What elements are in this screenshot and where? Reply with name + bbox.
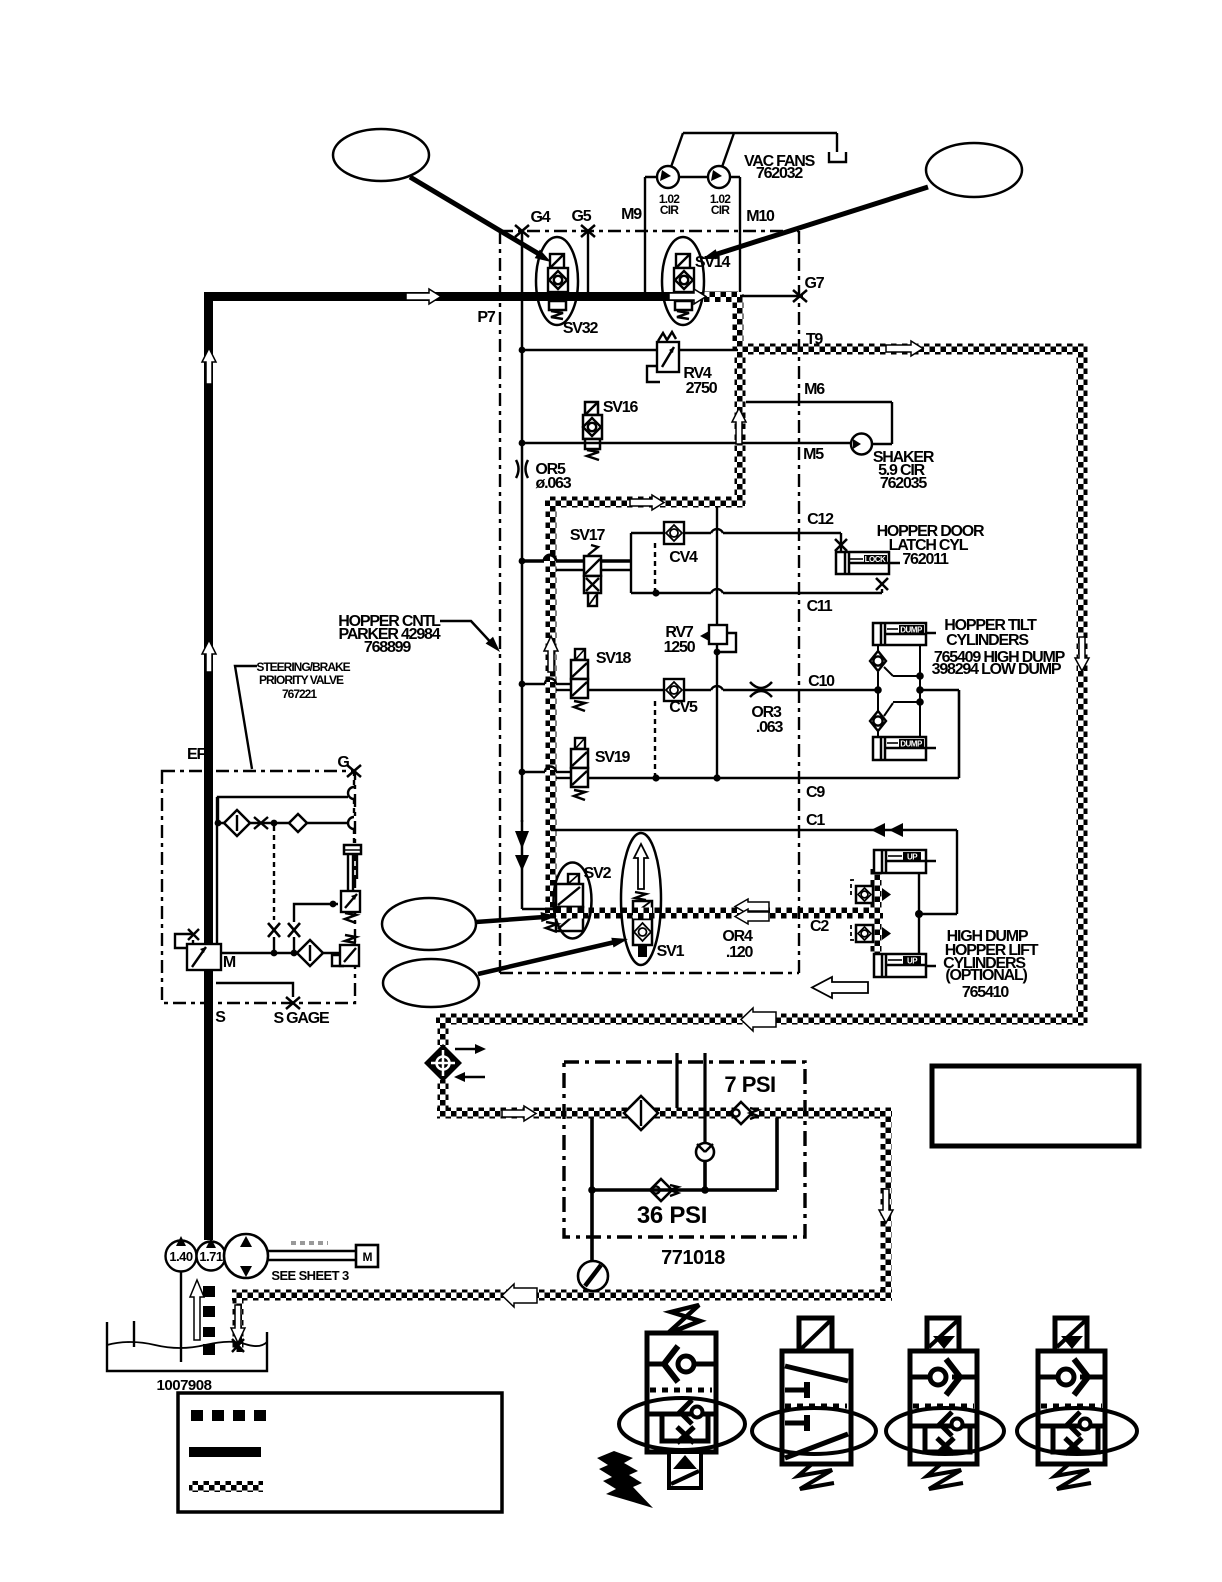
flow arrow left on C2 checkered — [735, 899, 769, 914]
svg-text:EF: EF — [187, 746, 206, 763]
leader hopper cntl — [440, 621, 496, 648]
wire P7 thick pressure line — [209, 297, 703, 1241]
wire bottom return checkered to tank y1295 — [232, 1290, 892, 1301]
wire lift cylinder vertical — [918, 873, 920, 954]
suction dashed thick line — [203, 1286, 215, 1355]
solenoid B — [799, 1318, 832, 1352]
solenoid A — [669, 1452, 701, 1488]
callout ellipse SV2 — [382, 898, 476, 950]
flow arrow up on x551 checkered — [544, 636, 558, 672]
svg-text:SV17: SV17 — [570, 527, 606, 544]
771018 manifold boundary dash-dot — [564, 1062, 805, 1237]
M9/M10 motor box — [644, 177, 646, 292]
callout ellipse top-right — [926, 143, 1022, 197]
svg-text:M: M — [223, 954, 236, 971]
vent tank symbol — [829, 152, 846, 162]
legend box — [178, 1393, 502, 1512]
relief valve RV4 — [522, 349, 738, 351]
36 PSI check — [650, 1179, 672, 1201]
filter diamond in manifold — [624, 1096, 658, 1130]
spring bottom C — [927, 1464, 963, 1489]
svg-text:CIR: CIR — [711, 203, 730, 217]
svg-text:T9: T9 — [806, 331, 824, 348]
body D — [1038, 1351, 1105, 1464]
svg-text:LOCK: LOCK — [865, 555, 886, 564]
leader arrow to SV32 — [410, 177, 539, 254]
wire checkered horizontal into hopper block y502 — [545, 497, 745, 508]
wire checkered drop into tank — [233, 1300, 244, 1352]
svg-text:SV1: SV1 — [657, 943, 685, 960]
svg-text:DUMP: DUMP — [900, 626, 923, 635]
steering/brake priority valve boundary dash-dot — [162, 771, 355, 1003]
cylinder high dump lift top — [874, 850, 936, 873]
svg-text:CYLINDERS: CYLINDERS — [946, 632, 1029, 649]
svg-text:(OPTIONAL): (OPTIONAL) — [945, 967, 1027, 984]
compensator valve — [341, 891, 360, 912]
legend pressure line sample — [189, 1447, 261, 1457]
svg-text:762035: 762035 — [880, 475, 927, 492]
manifold vent lines — [675, 1053, 678, 1108]
wire C2 checkered over SV2/SV1 — [556, 908, 583, 919]
flow arrow up on P7 vertical mid — [202, 640, 216, 672]
svg-text:C10: C10 — [808, 673, 835, 690]
svg-text:G4: G4 — [531, 209, 551, 226]
check valve diamond 1 — [224, 810, 250, 836]
pilot check lift upper — [851, 880, 857, 895]
svg-text:771018: 771018 — [661, 1247, 725, 1269]
flow arrow left on y1019 checkered — [741, 1008, 776, 1031]
wire G5 drop — [587, 231, 589, 292]
svg-text:UP: UP — [907, 957, 918, 966]
cooler flow arrows — [455, 1048, 475, 1051]
svg-text:STEERING/BRAKE: STEERING/BRAKE — [256, 660, 350, 674]
vac fan motor 1 — [657, 166, 679, 188]
svg-text:1.40: 1.40 — [169, 1249, 193, 1264]
svg-text:M9: M9 — [621, 206, 642, 223]
manifold internal lines — [590, 1118, 594, 1261]
motor SHAKER — [851, 434, 872, 455]
svg-text:765410: 765410 — [962, 984, 1009, 1001]
cylinder hopper tilt bottom — [873, 737, 936, 760]
wire bottom internal line — [217, 952, 340, 954]
svg-text:ø.063: ø.063 — [536, 475, 572, 492]
solenoid D — [1055, 1318, 1087, 1351]
orifice X latch top — [835, 539, 847, 551]
wire C10 — [684, 689, 711, 691]
valve detail A — [597, 1305, 745, 1508]
svg-text:SV16: SV16 — [603, 399, 639, 416]
flow arrow down into tank — [231, 1305, 245, 1343]
wire bracket SV17 outputs — [630, 533, 632, 593]
wire C9 — [588, 777, 959, 779]
callout ellipse top-left — [333, 129, 429, 181]
lightning bolt — [597, 1451, 653, 1508]
pilot L line to compensator — [294, 904, 338, 922]
detail box empty rectangle — [932, 1066, 1139, 1146]
svg-text:7 PSI: 7 PSI — [724, 1072, 775, 1097]
tilt cylinder check network — [878, 645, 920, 737]
svg-text:CV5: CV5 — [669, 699, 698, 716]
pilot line CV5 dashed — [654, 701, 656, 778]
svg-text:DUMP: DUMP — [900, 740, 923, 749]
erased label grey — [291, 1241, 328, 1245]
leader steering — [235, 666, 257, 769]
svg-text:M: M — [363, 1250, 373, 1264]
override ellipse D — [1017, 1408, 1137, 1454]
small diamond check — [289, 814, 307, 832]
wire C11 — [631, 592, 711, 594]
pump section circle 1.71 — [197, 1242, 226, 1271]
relief valve lower — [345, 935, 356, 943]
svg-text:768899: 768899 — [364, 639, 411, 656]
wire left rail inside priority — [216, 797, 218, 944]
wire M6 line — [746, 401, 892, 403]
wire C2 checkered horizontal — [545, 908, 883, 919]
valve detail D — [1017, 1318, 1137, 1489]
svg-text:398294 LOW DUMP: 398294 LOW DUMP — [932, 661, 1062, 678]
flow arrow right into manifold — [502, 1106, 536, 1121]
svg-text:UP: UP — [907, 853, 918, 862]
wire checkered vertical M5/M6 branch — [735, 354, 746, 504]
poppet check under vent — [696, 1143, 714, 1161]
svg-text:1007908: 1007908 — [157, 1377, 212, 1394]
svg-text:CV4: CV4 — [669, 549, 698, 566]
wire checkered vertical at lift cylinders — [871, 868, 882, 956]
spring bottom D — [1055, 1464, 1091, 1489]
wire rail down arrows — [521, 820, 524, 909]
spring top A — [668, 1305, 700, 1333]
pressure gauge — [578, 1261, 608, 1291]
wire right return checkered vertical x1082 — [1077, 344, 1088, 1026]
svg-text:1250: 1250 — [664, 639, 696, 656]
cylinder high dump lift bottom — [874, 954, 936, 977]
leader arrow to SV14 — [714, 187, 928, 255]
load sense piston — [344, 845, 361, 854]
svg-text:G: G — [337, 754, 349, 771]
big left arrow below lift — [812, 977, 868, 998]
svg-text:762011: 762011 — [902, 551, 949, 568]
svg-text:C9: C9 — [806, 784, 825, 801]
svg-text:SV19: SV19 — [595, 749, 631, 766]
svg-text:G7: G7 — [805, 275, 825, 292]
legend pilot line sample squares — [191, 1410, 266, 1421]
orifice X latch bottom — [876, 578, 888, 590]
svg-text:2750: 2750 — [686, 380, 718, 397]
node G7 — [740, 295, 803, 297]
wire M5 line — [522, 442, 851, 444]
valve SV1 — [621, 833, 661, 965]
check tilt lower — [870, 711, 886, 731]
cooler diamond — [424, 1044, 462, 1082]
svg-text:767221: 767221 — [282, 687, 317, 701]
pilot line CV4 dashed — [654, 543, 656, 593]
wire T9 return checkered horizontal — [737, 344, 1087, 355]
check tilt upper — [870, 651, 886, 671]
wire checkered manifold outlet vertical x886 — [881, 1118, 892, 1301]
pilot line G dashed with hops — [353, 771, 355, 787]
valve detail B — [752, 1318, 876, 1489]
body B — [782, 1351, 851, 1464]
orifice OR3 — [750, 682, 772, 688]
pilot dashed down from junction — [273, 826, 275, 920]
orifice X pair — [268, 923, 280, 937]
orifice OR5 — [516, 460, 519, 478]
svg-text:1.71: 1.71 — [199, 1249, 223, 1264]
svg-text:C1: C1 — [806, 812, 825, 829]
svg-text:CIR: CIR — [660, 203, 679, 217]
svg-text:C2: C2 — [810, 918, 829, 935]
hopper control block boundary dash-dot — [500, 231, 799, 973]
orifice X above prop valve — [188, 929, 199, 940]
svg-text:SEE SHEET 3: SEE SHEET 3 — [271, 1268, 349, 1283]
node X tank return — [232, 1339, 244, 1352]
valve SV16 — [583, 402, 602, 439]
svg-text:.063: .063 — [756, 719, 784, 736]
svg-text:M6: M6 — [804, 381, 825, 398]
flow arrow left on bottom return — [502, 1284, 537, 1307]
pump section circle 1.40 — [166, 1241, 197, 1272]
body A — [647, 1333, 716, 1452]
valve SV32 cartridge — [536, 237, 578, 325]
override ellipse B — [752, 1408, 876, 1454]
svg-text:SV32: SV32 — [563, 320, 599, 337]
flow arrow right on T9 — [886, 341, 923, 356]
svg-text:C12: C12 — [807, 511, 834, 528]
body C — [910, 1351, 977, 1464]
svg-text:M10: M10 — [746, 208, 775, 225]
cylinder hopper door latch — [836, 552, 900, 574]
flow arrow up suction — [190, 1280, 204, 1340]
svg-text:C11: C11 — [807, 598, 833, 615]
callout ellipse SV1 — [383, 959, 479, 1007]
pilot check lift lower — [851, 925, 857, 940]
vac fan drain lines — [671, 133, 683, 167]
tank outline — [107, 1322, 267, 1371]
wire C1 — [551, 829, 957, 831]
wire SV14 to T9 checkered drop — [733, 294, 744, 349]
flow arrow up on P7 vertical top — [202, 348, 216, 384]
svg-text:762032: 762032 — [756, 165, 803, 182]
node S GAGE — [286, 997, 300, 1009]
check valve CV5 — [588, 689, 664, 691]
legend return line sample — [189, 1481, 263, 1492]
relief valve RV7 — [716, 507, 718, 625]
bracket left of prop valve — [175, 934, 193, 948]
valve SV14 cartridge — [662, 237, 704, 325]
wire checkered vertical left x551 — [546, 497, 557, 919]
override ellipse C — [886, 1408, 1004, 1454]
wire priority top line — [218, 797, 348, 823]
solenoid C — [927, 1318, 959, 1351]
override ellipse A — [619, 1398, 745, 1450]
svg-text:.120: .120 — [726, 944, 754, 961]
cylinder hopper tilt top — [873, 623, 936, 645]
flow arrow right on y502 checkered — [630, 495, 664, 510]
svg-text:S GAGE: S GAGE — [273, 1010, 330, 1027]
svg-text:M5: M5 — [803, 446, 824, 463]
wire internal supply rail x522 — [521, 231, 524, 822]
svg-text:36 PSI: 36 PSI — [637, 1202, 707, 1229]
flow arrow down on right return checkered — [1075, 637, 1089, 671]
orifice X on line — [254, 817, 268, 829]
wire checkered drop to cooler — [438, 1024, 449, 1046]
flow arrow down on manifold outlet — [879, 1189, 893, 1223]
vac fan motor 2 — [708, 166, 730, 188]
flow arrow up on M5/M6 checkered — [732, 408, 746, 444]
junction dots tilt — [874, 686, 882, 694]
pump shaft — [268, 1250, 357, 1253]
svg-text:SV18: SV18 — [596, 650, 632, 667]
svg-text:SV14: SV14 — [695, 254, 731, 271]
motor M box — [356, 1245, 378, 1267]
valve detail C — [886, 1318, 1004, 1489]
wire bottom return checkered y1019 — [436, 1014, 1087, 1025]
flow arrow right on P7 end — [669, 289, 706, 304]
wire S gage line — [216, 983, 293, 997]
wire checkered stub after SV14 on P7 line — [702, 291, 738, 302]
svg-text:OR4: OR4 — [722, 928, 753, 945]
spring bottom B — [798, 1464, 834, 1489]
flow arrow right on P7 — [406, 289, 441, 304]
wire checkered into 771018 manifold y1113 — [437, 1108, 892, 1119]
check valve CV4 — [631, 532, 664, 534]
main pump circle — [224, 1234, 268, 1278]
proportional valve M — [187, 944, 221, 970]
svg-text:G5: G5 — [572, 208, 592, 225]
wire priority second line — [216, 822, 348, 824]
svg-text:S: S — [215, 1009, 226, 1026]
check valve diamond lower — [297, 940, 323, 966]
wire C12 — [684, 532, 711, 534]
svg-text:PRIORITY VALVE: PRIORITY VALVE — [259, 673, 344, 687]
wire checkered below cooler — [438, 1080, 449, 1113]
suction line from 1.40 — [180, 1272, 182, 1362]
svg-text:P7: P7 — [477, 309, 495, 326]
